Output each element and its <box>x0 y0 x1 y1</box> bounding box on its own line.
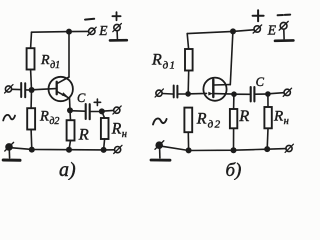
node: Rn bottom rail dot <box>101 147 107 153</box>
AC source tilde (left) <box>3 115 15 121</box>
wire: emitter down to node <box>69 98 72 110</box>
node: output node dot (right) <box>265 91 271 97</box>
output terminal (left circuit top) <box>113 106 121 114</box>
bottom input terminal (right) <box>155 141 164 150</box>
node: base node junction dot <box>29 87 35 93</box>
wire: cap C to output node (right) <box>256 93 265 95</box>
ground (left bottom) <box>3 150 20 161</box>
svg-text:C: C <box>77 91 86 105</box>
wire: Rn bottom to rail (right) <box>266 128 269 149</box>
svg-text:а): а) <box>59 159 76 180</box>
node: Rd2 bottom rail dot (right) <box>186 147 192 153</box>
transistor Q1 collector lead <box>57 77 69 84</box>
node: source junction dot <box>231 91 237 97</box>
label E (right) <box>267 22 277 37</box>
svg-text:R: R <box>238 106 249 125</box>
node: drain rail junction dot <box>230 28 236 34</box>
resistor Rd1 (left) <box>27 48 35 69</box>
node: output node junction dot <box>99 108 105 114</box>
svg-text:C: C <box>256 75 265 89</box>
plus sign over E terminal (right) <box>253 10 264 21</box>
battery terminal E- (left) <box>88 27 97 35</box>
label Rd2 (right) <box>196 110 221 130</box>
ground (left top) <box>110 31 127 41</box>
resistor Rn (right) <box>264 107 271 128</box>
wire: left bottom rail <box>9 148 114 150</box>
wire: cap to base node <box>26 89 29 91</box>
label a) caption <box>59 159 76 181</box>
node: gate node junction dot <box>185 91 191 97</box>
label b) caption <box>226 160 242 181</box>
svg-text:E: E <box>98 23 108 38</box>
label Rd1 (right) <box>151 51 175 71</box>
wire: Rn bottom to rail <box>104 139 105 150</box>
ground (right bottom) <box>151 148 170 160</box>
label E (left) <box>98 23 108 38</box>
battery terminal - (right) <box>279 21 288 30</box>
label R (left) <box>78 124 89 143</box>
battery terminal E+ (right) <box>253 25 262 33</box>
wire: input terminal to coupling cap (right) <box>162 93 172 96</box>
wire: cap to gate node (right) <box>179 93 186 95</box>
wire: base node to transistor base <box>34 89 56 90</box>
node: Rd2 bottom rail dot <box>29 147 35 153</box>
wire: output node down to Rn <box>102 111 105 118</box>
svg-text:Rн: Rн <box>273 109 289 128</box>
wire: Rd2 bottom to rail <box>30 130 33 150</box>
resistor Rd1 (right) <box>185 49 193 71</box>
label Rd1 (left) <box>40 53 60 71</box>
node: Rn bottom rail dot (right) <box>264 146 270 152</box>
label C (right) <box>256 75 265 89</box>
wire: R bottom to rail <box>69 141 71 150</box>
transistor Q2 drain lead <box>214 84 231 86</box>
resistor R (right) <box>230 109 237 128</box>
wire: cap C to output node <box>91 111 101 113</box>
label R (right) <box>238 106 249 125</box>
wire: drain up to rail <box>230 32 233 85</box>
wire: Rd1 bottom to gate node <box>187 71 190 94</box>
input terminal (right top) <box>155 89 163 97</box>
wire: collector up to rail <box>68 32 70 77</box>
wire: right bottom rail <box>162 146 286 150</box>
output terminal (right circuit top) <box>283 88 291 96</box>
wire: Rd1 bottom to base node <box>30 70 33 90</box>
transistor Q2 FET circle <box>203 78 226 101</box>
capacitor C (left) <box>86 104 90 119</box>
wire: output node to terminal (right) <box>268 93 284 94</box>
plus sign over ground terminal (left) <box>112 12 120 20</box>
output terminal (right circuit bottom) <box>285 144 293 152</box>
node: collector rail junction dot <box>66 29 72 35</box>
AC source tilde (right) <box>153 118 167 124</box>
label Rn (right) <box>273 109 289 128</box>
node: emitter junction dot <box>67 107 73 113</box>
label + polarity (left cap) <box>94 99 100 105</box>
wire: source node to cap C (right) <box>234 93 249 95</box>
resistor R (left) <box>67 120 75 140</box>
wire: input terminal to coupling cap <box>12 88 20 90</box>
minus sign over ground terminal (right) <box>278 14 291 17</box>
battery terminal + (left) <box>113 24 122 32</box>
label C (left) <box>77 91 86 105</box>
wire: output node to output terminal <box>102 109 113 112</box>
transistor Q2 source lead <box>214 93 234 96</box>
wire: gate node to FET gate <box>191 92 207 94</box>
input terminal (left top) <box>5 85 13 93</box>
resistor Rd2 (left) <box>27 108 35 129</box>
minus sign over E terminal (left) <box>85 18 94 21</box>
node: R bottom rail dot (right) <box>231 147 237 153</box>
transistor Q1 emitter lead with arrow <box>57 92 69 98</box>
label Rn (left) <box>111 120 127 140</box>
wire: Rd2 bottom to rail (right) <box>187 132 189 150</box>
wire: right top rail <box>187 30 253 34</box>
ground (right top) <box>275 29 293 40</box>
wire: output node down to Rn (right) <box>267 94 269 107</box>
label Rd2 (left) <box>39 108 59 127</box>
wire: left rail corner down to Rd1 <box>30 32 33 48</box>
wire: emitter node down to R <box>69 111 72 121</box>
wire: R bottom to rail (right) <box>233 128 235 150</box>
wire: right rail corner down to Rd1 <box>187 34 188 49</box>
svg-text:E: E <box>267 22 277 37</box>
transistor Q2 gate arrowhead <box>208 92 213 96</box>
svg-text:Rд2: Rд2 <box>196 110 221 130</box>
transistor Q1 BJT circle <box>49 77 73 101</box>
capacitor C (right) <box>251 87 255 101</box>
wire: emitter node to cap C <box>70 110 84 113</box>
resistor Rd2 (right) <box>184 108 192 133</box>
svg-text:Rн: Rн <box>111 120 127 140</box>
transistor Q2 channel bar <box>212 80 214 97</box>
svg-text:Rд1: Rд1 <box>40 53 60 71</box>
svg-text:б): б) <box>226 160 242 180</box>
output terminal (left circuit bottom) <box>114 145 122 153</box>
bottom input terminal (left) <box>5 142 14 151</box>
capacitor: input coupling cap (left) <box>21 83 25 97</box>
svg-text:Rд1: Rд1 <box>151 51 175 71</box>
svg-text:Rд2: Rд2 <box>39 108 59 127</box>
node: R bottom rail dot <box>66 147 72 153</box>
transistor Q1 base bar <box>56 82 58 94</box>
resistor Rn (left) <box>101 118 109 139</box>
wire: base node down to Rd2 <box>30 90 32 108</box>
capacitor: input coupling cap (right) <box>174 86 178 98</box>
wire: source node down to R (right) <box>233 94 235 109</box>
svg-text:R: R <box>78 124 89 143</box>
wire: left top rail <box>32 30 89 33</box>
